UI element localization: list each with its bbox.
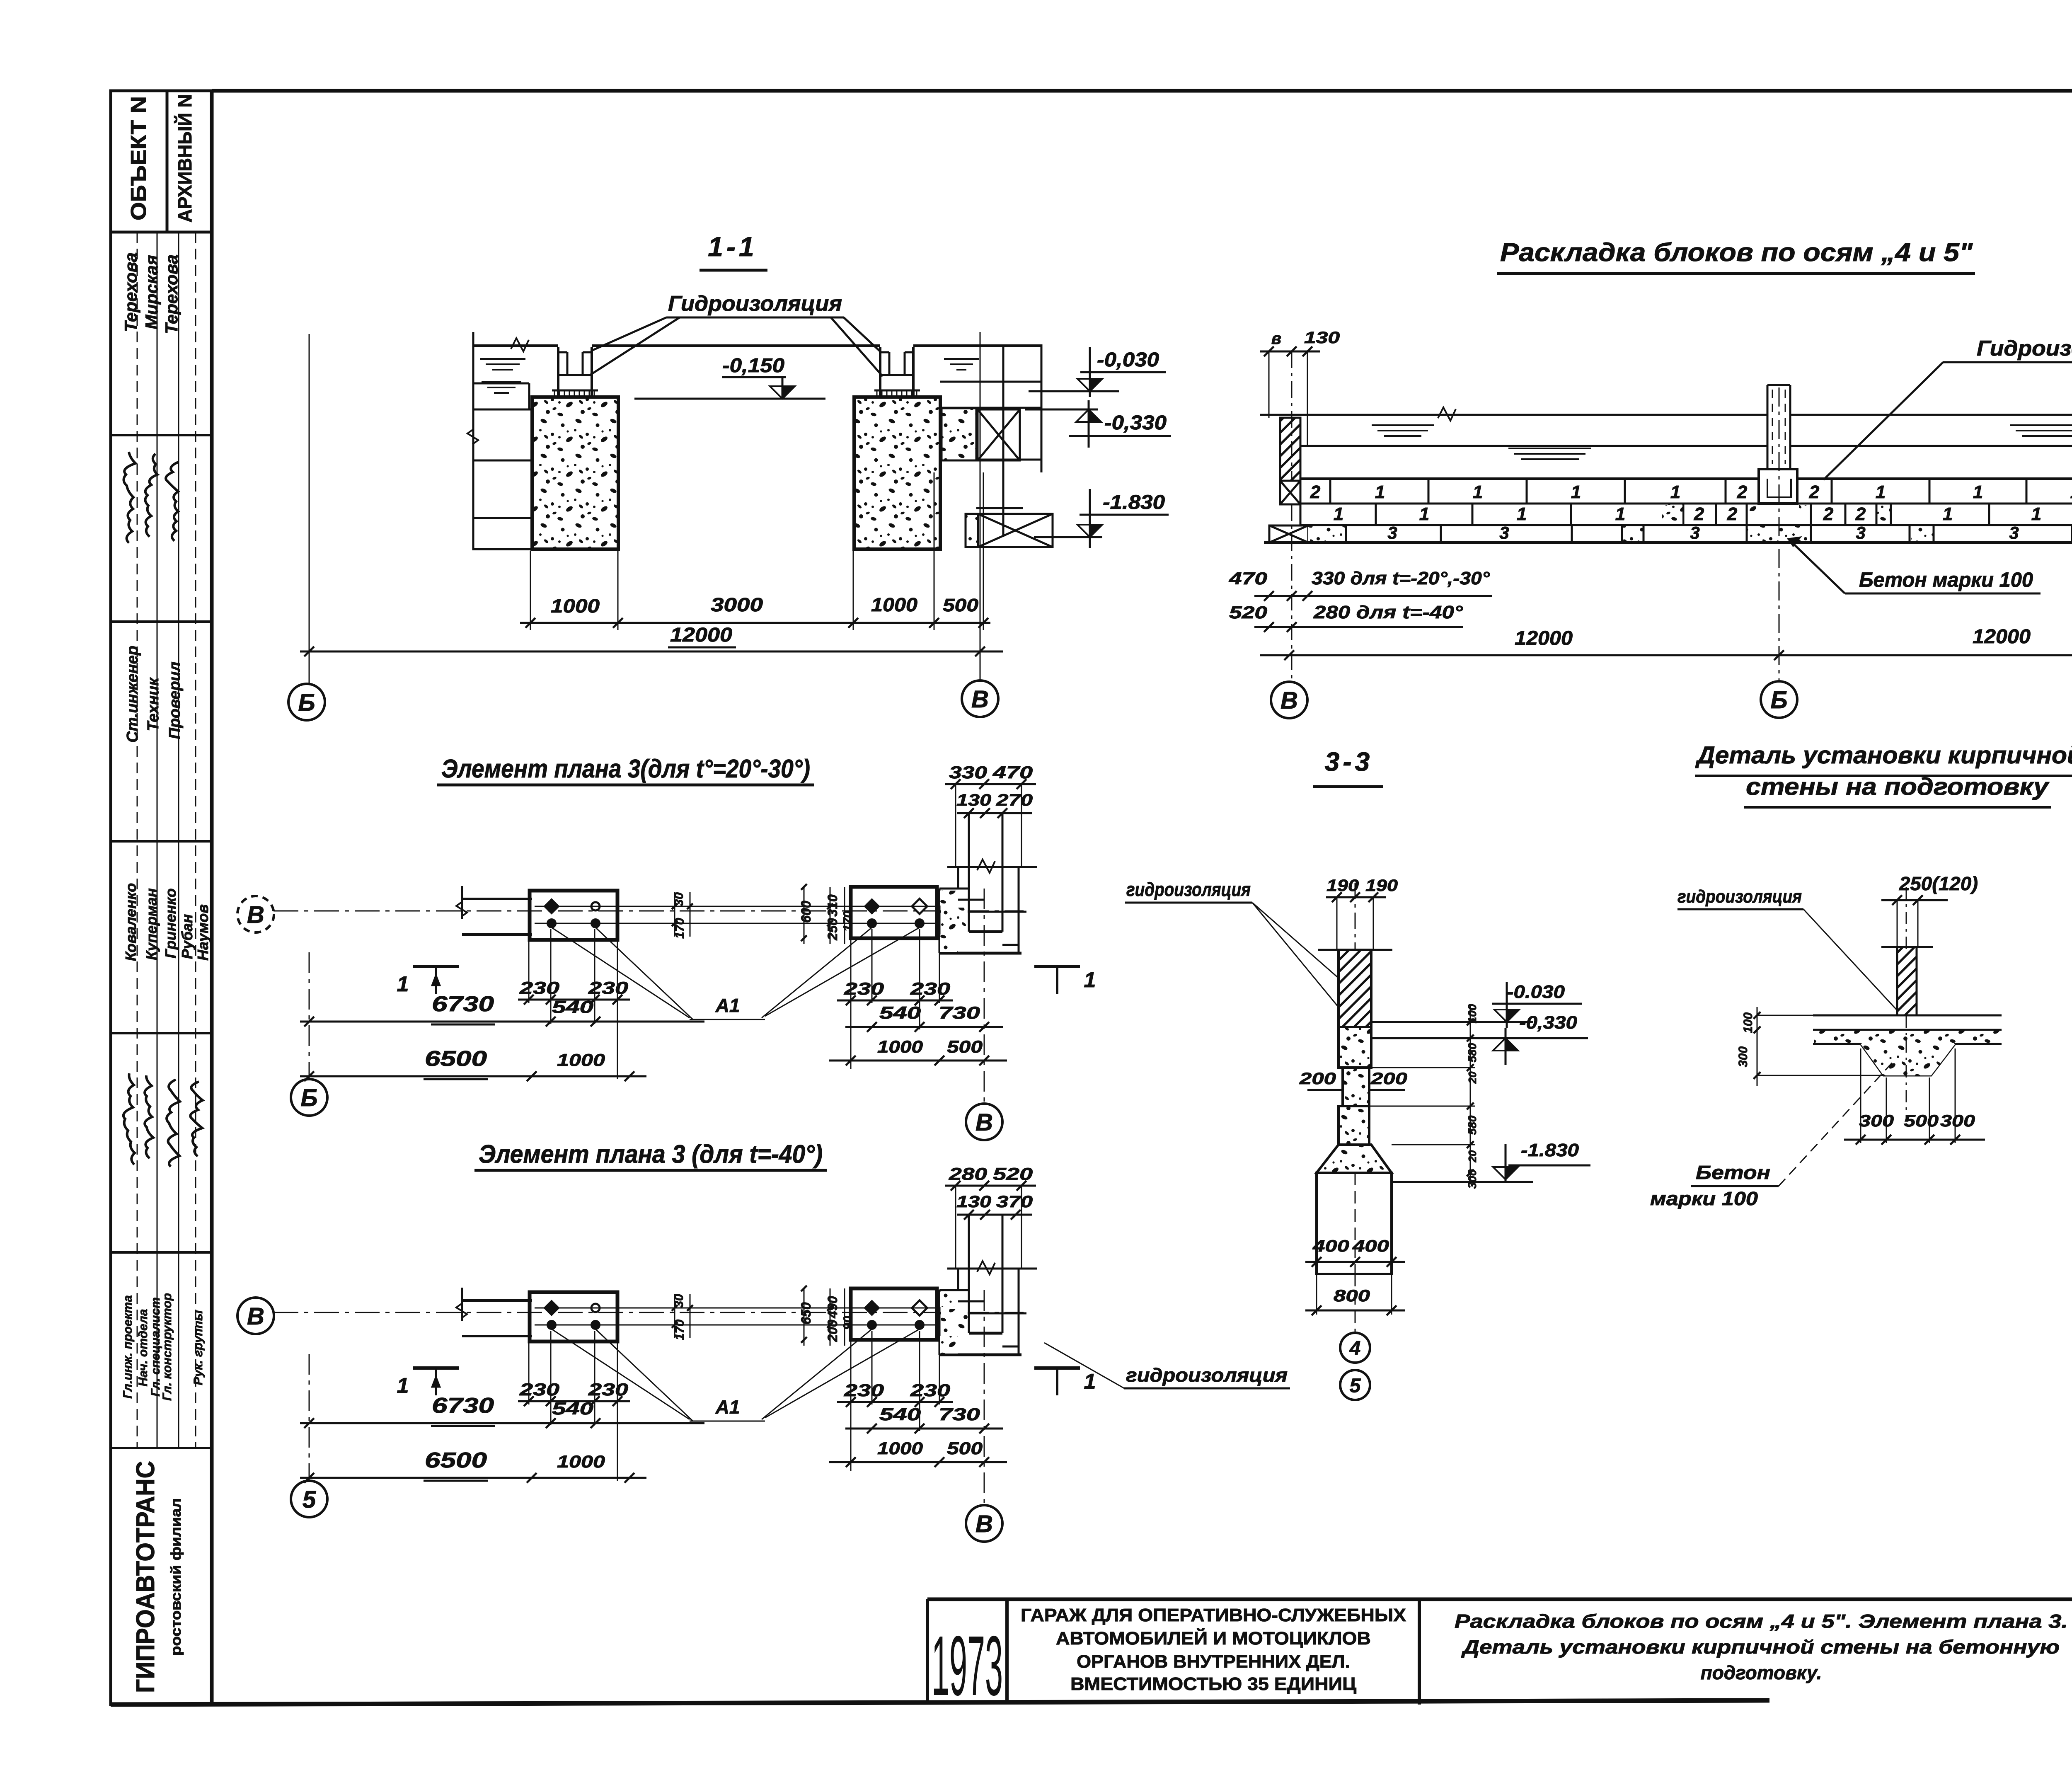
svg-text:Гриненко: Гриненко: [162, 889, 179, 959]
svg-text:Терехова: Терехова: [162, 254, 181, 334]
svg-text:230: 230: [519, 1380, 559, 1399]
svg-text:Элемент плана 3(для t°=20°-30°: Элемент плана 3(для t°=20°-30°): [441, 755, 810, 783]
svg-text:330 для t=-20°,-30°: 330 для t=-20°,-30°: [1312, 568, 1490, 588]
svg-text:1: 1: [397, 972, 409, 996]
svg-text:Раскладка блоков по осям „4 и: Раскладка блоков по осям „4 и 5". Элемен…: [1455, 1610, 2068, 1632]
svg-text:280: 280: [949, 1164, 987, 1184]
svg-text:1: 1: [1571, 482, 1581, 502]
right footing: [851, 887, 937, 938]
svg-text:Гидроизоляция: Гидроизоляция: [1977, 337, 2072, 361]
grid circle 5: [1340, 1370, 1370, 1400]
svg-text:-1.830: -1.830: [1521, 1140, 1579, 1160]
left footing bolts: [543, 1300, 560, 1316]
svg-text:6730: 6730: [432, 1394, 494, 1418]
svg-text:600: 600: [799, 901, 813, 923]
corner break line: [947, 1268, 1037, 1270]
svg-text:300: 300: [1940, 1112, 1975, 1130]
svg-text:-0,330: -0,330: [1104, 412, 1167, 434]
svg-text:20: 20: [1466, 1071, 1479, 1084]
svg-text:1: 1: [2031, 504, 2041, 524]
svg-text:2: 2: [1310, 482, 1321, 502]
dim v 130 left: [1260, 351, 1320, 353]
svg-text:Деталь установки кирпичной сте: Деталь установки кирпичной стены на бето…: [1461, 1636, 2060, 1658]
svg-text:200: 200: [1299, 1070, 1336, 1088]
svg-text:Б: Б: [298, 689, 315, 716]
grid circle B section 1-1: [288, 684, 325, 720]
left boundary line: [472, 332, 474, 550]
svg-text:730: 730: [939, 1404, 980, 1424]
ground line left: [473, 344, 558, 347]
svg-text:1: 1: [1473, 482, 1483, 502]
svg-text:580: 580: [1466, 1115, 1479, 1135]
svg-text:1000: 1000: [557, 1452, 605, 1471]
svg-text:-0,150: -0,150: [722, 355, 784, 377]
svg-text:130: 130: [956, 791, 991, 809]
corner walls: [957, 867, 959, 889]
svg-text:300: 300: [1859, 1112, 1894, 1130]
svg-text:5: 5: [303, 1486, 316, 1513]
svg-text:330: 330: [949, 763, 987, 782]
svg-text:1: 1: [1517, 504, 1527, 524]
right wall verticals: [1002, 344, 1005, 537]
svg-text:Наумов: Наумов: [194, 904, 211, 961]
axis bottom-left line: [309, 952, 310, 1079]
svg-text:1000: 1000: [877, 1037, 923, 1056]
svg-text:ГАРАЖ ДЛЯ ОПЕРАТИВНО-СЛУЖЕБНЫХ: ГАРАЖ ДЛЯ ОПЕРАТИВНО-СЛУЖЕБНЫХ: [1021, 1605, 1406, 1625]
svg-text:Рук. группы: Рук. группы: [191, 1310, 205, 1385]
svg-text:1000: 1000: [871, 594, 917, 615]
right column with waterproofing: [879, 347, 881, 397]
axis V circle left: [237, 1298, 274, 1334]
section mark 1 right: [1034, 965, 1080, 968]
3-3 concrete block 1: [1339, 1027, 1371, 1068]
svg-text:800: 800: [1334, 1287, 1370, 1305]
svg-text:1: 1: [1943, 504, 1953, 524]
svg-text:Гидроизоляция: Гидроизоляция: [668, 292, 842, 316]
grid circle 4: [1340, 1333, 1370, 1363]
left footing bolts: [543, 898, 560, 915]
svg-text:1973: 1973: [932, 1618, 1003, 1713]
svg-text:1: 1: [1876, 482, 1886, 502]
svg-text:2: 2: [1823, 504, 1834, 524]
svg-text:12000: 12000: [1973, 626, 2031, 648]
svg-text:А1: А1: [715, 995, 740, 1016]
left beam: [462, 898, 532, 900]
svg-text:230: 230: [844, 979, 884, 998]
svg-text:ОРГАНОВ ВНУТРЕННИХ ДЕЛ.: ОРГАНОВ ВНУТРЕННИХ ДЕЛ.: [1077, 1651, 1350, 1672]
left foundation pier: [532, 397, 618, 549]
svg-text:-1.830: -1.830: [1103, 492, 1165, 513]
axis V vertical to circle: [984, 889, 985, 1104]
right footing: [851, 1288, 937, 1340]
stamp band dividers: [111, 434, 212, 436]
title block verticals: [926, 1599, 929, 1705]
floor level line: [634, 398, 825, 400]
right foundation pier: [854, 397, 940, 549]
svg-text:130: 130: [1304, 329, 1340, 347]
3-3 wall axis verticals: [1336, 897, 1338, 950]
svg-text:250(120): 250(120): [1899, 873, 1978, 894]
svg-text:3: 3: [2009, 523, 2019, 542]
svg-text:90: 90: [841, 1316, 855, 1330]
grid circle V elevation: [1271, 682, 1307, 718]
central footing stipple block row3: [1747, 525, 1811, 542]
axis line B left: [309, 334, 310, 684]
left stamp column: [111, 91, 212, 1705]
left wall blocks: [473, 383, 529, 385]
3-3 concrete block 2: [1339, 1106, 1369, 1145]
svg-text:1: 1: [1334, 504, 1343, 524]
stamp lane lines: [137, 232, 138, 1448]
grid circle V bottom: [966, 1505, 1002, 1542]
svg-text:марки 100: марки 100: [1650, 1188, 1758, 1209]
svg-text:540: 540: [552, 997, 593, 1017]
svg-text:20: 20: [1466, 1150, 1479, 1162]
section mark 1 left: [413, 1366, 459, 1370]
svg-text:2: 2: [1737, 482, 1748, 502]
svg-text:540: 540: [552, 1399, 593, 1418]
3-3 vertical dim chain: [1470, 1004, 1471, 1182]
svg-text:-0,030: -0,030: [1097, 349, 1159, 371]
svg-text:гидроизоляция: гидроизоляция: [1677, 886, 1802, 907]
svg-text:Раскладка блоков по осям „4 и: Раскладка блоков по осям „4 и 5": [1500, 238, 1973, 267]
svg-text:12000: 12000: [1515, 627, 1573, 649]
svg-text:Элемент плана 3 (для t=-40°): Элемент плана 3 (для t=-40°): [479, 1140, 823, 1169]
svg-text:230: 230: [844, 1380, 884, 1400]
stamp header divider: [166, 91, 169, 232]
left cross box row1: [1280, 481, 1300, 504]
grid circle bottom-left: [291, 1481, 327, 1517]
svg-text:Б: Б: [1770, 687, 1787, 714]
svg-text:Гл.инж. проекта: Гл.инж. проекта: [121, 1295, 135, 1399]
svg-text:730: 730: [939, 1003, 980, 1022]
svg-text:1: 1: [1084, 968, 1096, 992]
svg-text:В: В: [247, 901, 264, 928]
svg-text:Терехова: Терехова: [121, 252, 140, 332]
block row3: [1264, 541, 2072, 544]
svg-text:2: 2: [1727, 504, 1738, 524]
section mark 1 left: [413, 965, 459, 968]
axis V line: [274, 910, 1024, 912]
svg-text:Мирская: Мирская: [142, 255, 161, 329]
central pier column: [1767, 385, 1769, 469]
svg-text:-0.030: -0.030: [1507, 982, 1565, 1002]
svg-text:АВТОМОБИЛЕЙ И МОТОЦИКЛОВ: АВТОМОБИЛЕЙ И МОТОЦИКЛОВ: [1056, 1627, 1371, 1649]
svg-text:подготовку.: подготовку.: [1701, 1662, 1822, 1683]
detail axis line: [1906, 887, 1907, 949]
svg-text:Б: Б: [300, 1085, 317, 1111]
left beam: [462, 1299, 532, 1302]
bolt lines: [535, 1308, 936, 1309]
svg-text:580: 580: [1466, 1043, 1479, 1062]
level -0.330 section 1-1: [1025, 409, 1098, 411]
svg-text:500: 500: [947, 1037, 983, 1056]
detail brick wall hatched: [1897, 947, 1917, 1015]
corner break line: [947, 866, 1037, 868]
3-3 level -0.330: [1371, 1037, 1588, 1039]
axis V vertical to circle: [984, 1290, 985, 1505]
svg-text:Коваленко: Коваленко: [122, 883, 139, 961]
right footing bolts: [864, 1300, 880, 1316]
axis bottom-left line: [309, 1354, 310, 1481]
svg-text:Техник: Техник: [145, 677, 162, 731]
axis V line: [274, 1312, 1024, 1313]
svg-text:540: 540: [879, 1404, 921, 1424]
svg-text:2: 2: [1855, 504, 1866, 524]
soil squiggles elevation: [1372, 424, 1434, 426]
A1 leaders: [552, 1329, 690, 1419]
svg-text:1000: 1000: [557, 1050, 605, 1070]
svg-text:ростовский филиал: ростовский филиал: [168, 1498, 184, 1656]
right footing bolts: [864, 898, 880, 915]
svg-text:Нач. отдела: Нач. отдела: [136, 1309, 150, 1387]
elevation dim 12000 12000: [1260, 654, 2072, 656]
svg-text:3: 3: [1690, 523, 1699, 542]
svg-text:190: 190: [1326, 877, 1359, 895]
svg-text:гидроизоляция: гидроизоляция: [1126, 879, 1251, 900]
grid circle B elevation: [1761, 681, 1797, 718]
svg-text:3: 3: [1856, 523, 1865, 542]
svg-text:280 для t=-40°: 280 для t=-40°: [1313, 602, 1463, 622]
svg-text:400: 400: [1352, 1237, 1389, 1255]
corner walls: [957, 1269, 959, 1290]
svg-text:2: 2: [1809, 482, 1820, 502]
ground line elevation: [1260, 414, 1767, 416]
svg-text:100: 100: [1741, 1012, 1755, 1033]
svg-text:3000: 3000: [711, 594, 763, 615]
svg-text:гидроизоляция: гидроизоляция: [1126, 1364, 1288, 1386]
svg-text:310: 310: [825, 894, 840, 917]
svg-text:500: 500: [943, 595, 979, 615]
soil marks left: [480, 358, 525, 360]
svg-text:1: 1: [1419, 504, 1429, 524]
svg-text:3-3: 3-3: [1325, 747, 1373, 777]
svg-text:490: 490: [825, 1296, 840, 1319]
3-3 lower footing: [1317, 1173, 1392, 1274]
axis V circle left: [237, 896, 274, 932]
A1 leaders: [552, 927, 690, 1018]
corner wall verticals: [955, 784, 956, 867]
grid circle V bottom: [966, 1104, 1002, 1140]
svg-text:в: в: [1271, 329, 1281, 348]
svg-text:Ст.инженер: Ст.инженер: [124, 646, 141, 743]
right wall block with cross: [942, 408, 976, 460]
svg-text:1: 1: [1375, 482, 1385, 502]
svg-text:ГИПРОАВТОТРАНС: ГИПРОАВТОТРАНС: [131, 1461, 160, 1693]
svg-text:6500: 6500: [425, 1448, 487, 1472]
svg-text:1: 1: [1670, 482, 1680, 502]
axis line V right: [980, 332, 981, 680]
svg-text:520: 520: [993, 1164, 1033, 1184]
svg-text:470: 470: [1229, 569, 1267, 588]
svg-text:300: 300: [1466, 1169, 1479, 1189]
svg-text:4: 4: [1349, 1337, 1361, 1359]
svg-text:Гл. конструктор: Гл. конструктор: [160, 1293, 174, 1401]
svg-text:12000: 12000: [670, 624, 732, 646]
svg-text:Проверил: Проверил: [166, 662, 184, 739]
svg-text:Бетон марки 100: Бетон марки 100: [1859, 568, 2033, 591]
detail slab lines: [1813, 1015, 2002, 1017]
corner stipple blocks: [940, 1292, 957, 1307]
svg-text:6730: 6730: [432, 992, 494, 1016]
svg-text:А1: А1: [715, 1396, 740, 1418]
svg-text:В: В: [247, 1303, 264, 1330]
axis B dash line: [1291, 351, 1293, 481]
3-3 axis to circles: [1355, 1274, 1356, 1333]
left footing: [530, 1292, 617, 1341]
dimension chain 1000 3000 1000 500: [520, 622, 990, 624]
left column with waterproofing: [557, 347, 559, 397]
svg-text:400: 400: [1312, 1237, 1349, 1255]
sand layer line elevation: [1300, 445, 1767, 447]
svg-text:1000: 1000: [551, 595, 600, 617]
left cross box row3: [1269, 525, 1308, 542]
svg-text:170: 170: [841, 911, 855, 932]
3-3 brick wall hatched: [1339, 950, 1371, 1027]
3-3 leader lines to chain: [1369, 1067, 1475, 1068]
svg-text:200: 200: [1370, 1070, 1407, 1088]
section mark 1 right: [1034, 1366, 1080, 1370]
svg-text:500: 500: [1904, 1112, 1939, 1130]
svg-text:5: 5: [1350, 1375, 1361, 1397]
svg-text:Деталь установки кирпичной: Деталь установки кирпичной: [1695, 742, 2072, 769]
svg-text:190: 190: [1365, 877, 1398, 895]
svg-text:3: 3: [1499, 523, 1509, 542]
svg-text:500: 500: [947, 1438, 983, 1458]
left footing: [530, 891, 617, 940]
svg-text:В: В: [975, 1109, 993, 1136]
svg-text:520: 520: [1229, 603, 1267, 622]
gidroizolyaciya leaders: [593, 317, 666, 350]
svg-text:1: 1: [1615, 504, 1625, 524]
3-3 wall top line: [1318, 949, 1392, 951]
svg-text:АРХИВНЫЙ N: АРХИВНЫЙ N: [174, 94, 196, 223]
svg-text:1: 1: [1973, 482, 1983, 502]
svg-text:3: 3: [1387, 523, 1397, 542]
svg-text:В: В: [1280, 687, 1298, 714]
svg-text:130: 130: [956, 1193, 991, 1211]
svg-text:540: 540: [879, 1003, 921, 1022]
svg-text:1-1: 1-1: [708, 231, 757, 262]
svg-text:В: В: [975, 1511, 993, 1538]
svg-text:300: 300: [1736, 1046, 1750, 1067]
svg-text:6500: 6500: [425, 1047, 487, 1071]
stamp signatures band 2: [123, 1073, 135, 1165]
svg-text:-0,330: -0,330: [1519, 1012, 1578, 1033]
block row2: [1300, 524, 1747, 526]
3-3 small block 200x200: [1343, 1068, 1369, 1106]
svg-text:В: В: [971, 686, 989, 713]
svg-text:1: 1: [397, 1374, 409, 1398]
svg-text:Бетон: Бетон: [1696, 1162, 1770, 1183]
corner wall verticals: [955, 1186, 956, 1269]
dimension 12000 section 1-1: [300, 651, 1003, 653]
axis B dash line elevation: [1779, 387, 1780, 680]
svg-text:2: 2: [1694, 504, 1704, 524]
page frame: [212, 89, 2072, 93]
svg-text:230: 230: [519, 978, 559, 998]
svg-text:650: 650: [799, 1302, 813, 1325]
block row1: [1300, 477, 1759, 480]
svg-text:Куперман: Куперман: [143, 888, 160, 960]
detail trapezoid pit: [1813, 1044, 2002, 1075]
frame bottom heavy line: [111, 1700, 1769, 1705]
svg-text:470: 470: [992, 763, 1033, 782]
soil marks right: [944, 358, 979, 360]
grid circle V section 1-1: [962, 680, 998, 717]
corner stipple blocks: [940, 891, 957, 906]
svg-text:270: 270: [996, 791, 1033, 809]
svg-text:1: 1: [2070, 482, 2072, 502]
central pier block: [1759, 469, 1797, 504]
bolt lines: [535, 906, 936, 907]
stamp signatures band: [123, 452, 136, 543]
svg-text:ВМЕСТИМОСТЬЮ 35 ЕДИНИЦ: ВМЕСТИМОСТЬЮ 35 ЕДИНИЦ: [1070, 1674, 1356, 1694]
ground line middle-right: [592, 344, 880, 347]
svg-text:ОБЪЕКТ N: ОБЪЕКТ N: [127, 96, 151, 220]
svg-text:370: 370: [996, 1193, 1033, 1211]
3-3 trapezoid footing: [1317, 1145, 1392, 1173]
right wall course lines: [940, 381, 1041, 383]
central pier footing row2: [1747, 504, 1811, 525]
svg-text:1: 1: [1084, 1370, 1096, 1394]
svg-text:Рубан: Рубан: [179, 914, 196, 959]
left hatched column: [1280, 418, 1300, 481]
title block top line: [927, 1598, 2072, 1601]
svg-text:1000: 1000: [877, 1438, 923, 1458]
grid circle bottom-left: [291, 1079, 327, 1116]
svg-text:стены на подготовку: стены на подготовку: [1746, 773, 2050, 800]
right lower cross box: [966, 514, 978, 547]
svg-text:100: 100: [1466, 1004, 1479, 1023]
